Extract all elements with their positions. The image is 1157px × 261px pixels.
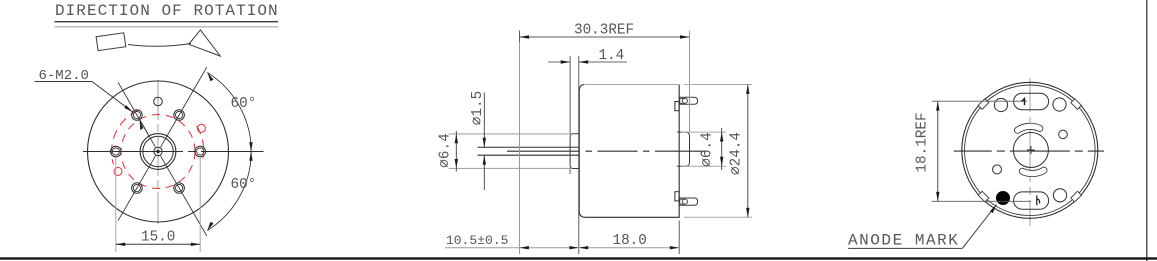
svg-text:∅6.4: ∅6.4 — [438, 133, 454, 167]
1.4 arrow right — [579, 60, 588, 63]
6-M2.0 leader line — [92, 82, 133, 113]
dia1.5 arrow up — [483, 155, 486, 164]
dia6.4 left dimension line — [455, 131, 457, 172]
10.5 arrow left — [520, 246, 529, 249]
bolt hole right (0 deg) — [195, 146, 206, 157]
rotation arrow arc — [128, 44, 191, 47]
shaft center dot — [156, 150, 159, 153]
svg-text:60°: 60° — [231, 177, 257, 193]
10.5 arrow right — [569, 246, 578, 249]
svg-text:ANODE MARK: ANODE MARK — [848, 231, 959, 249]
motor body outline — [579, 85, 679, 218]
crimp notch 45 deg — [1071, 99, 1082, 110]
15.0 arrow right — [191, 243, 200, 246]
phantom cylinder top line (gray) — [449, 133, 570, 135]
flange extension line lower tail — [569, 169, 571, 175]
18.1REF extension line top — [932, 100, 1027, 102]
hub outer circle — [140, 134, 176, 170]
bottom arc slot — [1022, 170, 1044, 173]
bushing flange — [570, 134, 579, 169]
svg-text:∅24.4: ∅24.4 — [729, 132, 745, 175]
dia24.4 extension bottom (gray) — [684, 216, 752, 218]
6-M2.0 leader underline — [35, 81, 93, 83]
center bearing circle — [1013, 133, 1048, 168]
30.3REF arrow right — [680, 35, 690, 38]
bottom tab slot lines — [680, 199, 685, 204]
bolt hole 60 deg — [174, 110, 185, 121]
flange extension line upper (dark vertical) — [569, 56, 571, 134]
center mark — [1027, 146, 1035, 154]
spoke 300 deg — [161, 156, 207, 236]
18.0 arrow left — [579, 246, 588, 249]
svg-text:60°: 60° — [231, 96, 257, 112]
svg-text:∅6.4: ∅6.4 — [700, 132, 716, 166]
drawing frame bottom border — [0, 257, 1157, 259]
bolt hole 240 deg — [132, 183, 143, 194]
bolt hole left (180 deg) — [111, 146, 122, 157]
svg-text:1.4: 1.4 — [599, 48, 625, 64]
red small hole lower left — [114, 167, 122, 175]
drawing frame right border — [1146, 0, 1148, 261]
bottom slot tiny mark — [1037, 195, 1040, 205]
arc arrowhead middle lower — [249, 152, 252, 161]
shaft circle — [154, 147, 162, 155]
dia6.4 right extension bottom (gray) — [681, 165, 726, 167]
hole bottom right — [1053, 189, 1066, 202]
shaft tip reference line (gray vertical) — [519, 42, 521, 254]
15.0 extension line right (gray) — [199, 158, 201, 253]
rotation arrowhead triangle — [189, 30, 221, 56]
top slot tiny mark — [1022, 98, 1025, 105]
top tab slot lines — [680, 98, 685, 103]
body front extension line (dark vertical) — [578, 56, 580, 254]
dia24.4 arrow down — [746, 208, 749, 217]
spoke 120 deg — [118, 82, 156, 147]
18.0 right extension line — [678, 221, 680, 255]
hole top right — [1053, 98, 1066, 111]
top tab base plate — [675, 102, 679, 111]
angular dimension arc 60+60 — [207, 73, 251, 231]
shaft bottom line — [478, 154, 580, 156]
dia6.4 right arrow up — [720, 132, 723, 141]
dia24.4 dimension line — [747, 85, 749, 218]
horizontal centerline — [83, 151, 264, 153]
30.3REF left extension tick — [519, 31, 521, 43]
bottom vent slot — [1014, 192, 1049, 209]
30.3REF arrow left — [520, 35, 530, 38]
arc arrowhead middle upper — [249, 142, 252, 151]
6-M2.0 leader arrowhead — [124, 105, 133, 112]
crimp notch 315 deg — [1071, 191, 1082, 202]
top arc slot — [1018, 126, 1040, 130]
bolt hole 300 deg — [174, 183, 185, 194]
15.0 arrow left — [116, 243, 125, 246]
top tab slot circle — [682, 98, 687, 103]
anode mark dot (filled) — [996, 191, 1010, 205]
red small hole upper right — [197, 124, 205, 132]
30.3REF dimension line — [520, 36, 690, 38]
anode leader arrowhead — [990, 205, 997, 214]
anode leader underline — [848, 247, 962, 249]
18.1REF arrow up — [936, 101, 939, 110]
dia6.4 left arrow down — [455, 159, 458, 168]
15.0 extension line left (gray) — [115, 158, 117, 253]
top pilot hole — [154, 97, 163, 106]
rear horizontal centerline — [954, 150, 1104, 152]
rear vertical centerline (gray) — [1029, 78, 1031, 226]
opposite arrowhead on hole — [140, 120, 148, 134]
crimp notch 135 deg — [978, 99, 989, 110]
title underline dark — [55, 21, 279, 23]
hole left middle — [993, 165, 1002, 174]
dia6.4 right arrow down — [720, 157, 723, 166]
18.1REF arrow down — [936, 192, 939, 201]
red pitch arc right — [197, 126, 204, 158]
top vent slot — [1014, 93, 1049, 110]
vertical centerline (gray) — [157, 80, 159, 224]
svg-text:18.0: 18.0 — [613, 233, 647, 249]
1.4 arrow left — [561, 60, 570, 63]
rear inner circle — [965, 85, 1096, 216]
shaft top line — [478, 146, 580, 148]
anode leader diagonal — [962, 205, 996, 249]
spoke 60 deg — [161, 67, 207, 147]
svg-text:30.3REF: 30.3REF — [574, 23, 634, 39]
dia1.5 dimension line lower — [483, 155, 485, 190]
svg-text:18.1REF: 18.1REF — [915, 112, 931, 172]
top terminal tab — [678, 97, 697, 104]
bottom tab base plate — [675, 192, 679, 201]
hole top left — [994, 98, 1007, 111]
18.0 arrow right — [670, 246, 679, 249]
hub inner ring — [143, 136, 173, 166]
arc arrowhead top — [207, 73, 213, 82]
spoke 240 deg — [118, 156, 156, 221]
rear bearing boss — [677, 132, 690, 166]
bottom tab slot circle — [682, 199, 687, 204]
dia1.5 dimension line upper — [483, 93, 485, 148]
svg-text:∅1.5: ∅1.5 — [470, 91, 486, 125]
bottom dimension line (gray, 10.5 and 18.0) — [445, 247, 679, 249]
body top edge (gray) — [584, 84, 679, 86]
15.0 dimension line — [116, 243, 200, 245]
axis centerline — [507, 150, 706, 152]
svg-text:15.0: 15.0 — [141, 229, 175, 245]
hole right middle — [1059, 130, 1068, 139]
dia6.4 left arrow up — [455, 134, 458, 143]
18.1REF extension line bottom — [932, 200, 1031, 202]
18.1REF dimension line — [937, 101, 939, 201]
dia24.4 arrow up — [746, 85, 749, 94]
1.4 dimension line left part — [548, 61, 570, 63]
1.4 dimension line right part — [579, 61, 627, 63]
dia6.4 right extension top (gray) — [681, 131, 726, 133]
bottom terminal tab — [678, 198, 697, 205]
30.3REF right extension line (gray) — [689, 31, 691, 133]
title underline gray — [55, 26, 279, 28]
svg-text:10.5±0.5: 10.5±0.5 — [446, 233, 508, 248]
crimp notch 225 deg — [978, 191, 989, 202]
red pitch circle inner (dashed) — [121, 115, 195, 189]
bolt hole 120 deg — [132, 110, 143, 121]
red pitch circle outer (dashed arcs) — [112, 110, 139, 164]
dia1.5 arrow down — [483, 138, 486, 147]
dia24.4 extension top (gray) — [684, 84, 752, 86]
phantom cylinder bottom line (gray) — [449, 167, 570, 169]
svg-text:DIRECTION OF ROTATION: DIRECTION OF ROTATION — [55, 2, 279, 20]
rear outer circle — [962, 82, 1098, 218]
arc arrowhead bottom — [207, 222, 213, 231]
dia6.4 right dimension line — [721, 128, 723, 170]
outer circle — [88, 81, 229, 222]
rotation arrow tail rectangle — [96, 33, 126, 51]
